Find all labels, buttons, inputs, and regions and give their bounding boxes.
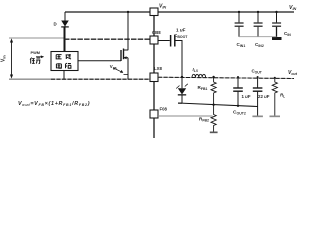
pin VIN box bbox=[150, 4, 166, 16]
node Vgs annotation bbox=[110, 64, 128, 74]
text drive hanzi (驱动) hand-drawn bbox=[56, 54, 71, 59]
resistor RFB2 bbox=[199, 105, 216, 132]
capacitor Cboot bbox=[171, 28, 189, 47]
svg-text:1 uF: 1 uF bbox=[242, 94, 251, 99]
wire Cin bottoms gray bbox=[239, 36, 277, 38]
node junction LX-Cout1 bbox=[237, 76, 239, 78]
node junction rail-Cin2 bbox=[257, 11, 259, 13]
capacitor Cout1 bbox=[233, 77, 251, 106]
text output formula bbox=[18, 101, 90, 107]
text Cout2 label bbox=[233, 110, 246, 116]
inductor L1 bbox=[192, 67, 206, 77]
wire drain to rail bbox=[127, 12, 129, 50]
node Vin- gray wire left bottom bbox=[9, 78, 51, 80]
capacitor Cin1 bbox=[235, 12, 246, 48]
wire ground rail bbox=[178, 103, 258, 107]
svg-text:CB8: CB8 bbox=[152, 30, 161, 35]
resistor RFB1 bbox=[198, 77, 217, 105]
capacitor Cin2 bbox=[254, 12, 264, 48]
node junction rail-RFB bbox=[212, 104, 214, 106]
node Vin+ gray wire left bbox=[9, 37, 64, 39]
wire source to bottom bbox=[127, 58, 129, 79]
svg-text:F08: F08 bbox=[160, 107, 168, 112]
node PWM signal label bbox=[31, 50, 45, 58]
diode D1 catch bbox=[176, 77, 188, 103]
svg-text:22 uF: 22 uF bbox=[258, 94, 270, 99]
node junction rail-Cin1 bbox=[238, 11, 240, 13]
text circuit hanzi (电路) hand-drawn bbox=[56, 63, 71, 68]
capacitor Cout2 bbox=[252, 69, 270, 116]
wire LX output bbox=[158, 77, 294, 78]
capacitor Cin3 bbox=[272, 12, 291, 37]
svg-text:PWM: PWM bbox=[31, 50, 41, 55]
node junction LX-RFB1 bbox=[212, 76, 214, 78]
pin LX box bbox=[150, 66, 162, 82]
svg-text:D: D bbox=[54, 22, 57, 27]
resistor RL bbox=[272, 78, 285, 116]
ground Cout2 bbox=[252, 116, 263, 118]
wire drive box bottom stub bbox=[63, 71, 65, 80]
diode D (bootstrap) bbox=[54, 21, 69, 28]
text Vout label bbox=[288, 70, 298, 76]
block drive circuit box U1 bbox=[51, 52, 78, 71]
node signal hanzi (信号) hand-drawn bbox=[30, 58, 40, 64]
node junction rail-drain bbox=[127, 11, 129, 13]
wire top Vin rail bbox=[65, 11, 294, 13]
wire FB feedback gray bbox=[158, 115, 213, 117]
wire Cboot to LX node bbox=[176, 41, 183, 78]
wire dashed bottom to LX pin bbox=[51, 78, 150, 80]
text VIN label right bbox=[289, 5, 297, 11]
node junction LX-Cout2 bbox=[257, 76, 259, 78]
node junction rail-Cout1 bbox=[237, 105, 239, 107]
ground RL bbox=[270, 116, 281, 118]
wire IC pin column vertical bbox=[153, 16, 155, 139]
transistor Q1 power NMOS bbox=[121, 49, 128, 62]
svg-text:LX8: LX8 bbox=[154, 66, 162, 71]
pin FB box bbox=[150, 107, 168, 119]
wire diode branch vertical bbox=[64, 12, 66, 52]
wire drive box top stub (diode line continues) bbox=[63, 28, 65, 52]
svg-text:1 uF: 1 uF bbox=[176, 28, 186, 33]
wire gate drive output bbox=[78, 60, 121, 62]
ground RFB2 bbox=[210, 132, 218, 134]
wire CB to Cboot bbox=[158, 40, 170, 42]
pin CB box bbox=[150, 30, 161, 44]
node junction LX-RL bbox=[274, 77, 276, 79]
node junction rail-diode bbox=[178, 102, 182, 104]
wire dashed to CB pin bbox=[64, 38, 150, 40]
node junction rail-Cin3 bbox=[275, 11, 277, 13]
node Vin input arrow bbox=[1, 38, 14, 78]
ground Cin3 bbox=[272, 37, 282, 40]
node junction LX-diode bbox=[181, 76, 183, 78]
